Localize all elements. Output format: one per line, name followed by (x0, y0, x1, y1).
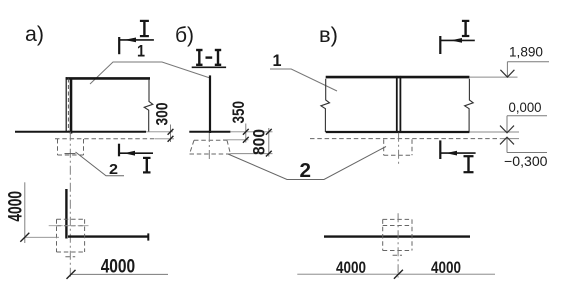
plan view v: wall horizontal (324, 235, 470, 237)
ground line view b (189, 131, 230, 133)
dimension 4000 horizontal (plan a) (71, 273, 168, 275)
dimension 4000 vertical (plan a) (24, 182, 26, 243)
underground dashed line view a (55, 138, 155, 140)
svg-text:4000: 4000 (6, 191, 27, 222)
plan view a: wall horizontal (68, 235, 148, 237)
svg-text:4000: 4000 (431, 258, 461, 277)
foundation dashed box view v elevation (384, 139, 412, 155)
svg-text:1: 1 (137, 42, 145, 61)
centerline view b (208, 133, 210, 161)
leader of label 1 view v (270, 69, 337, 91)
svg-text:350: 350 (229, 101, 248, 124)
foundation trapezoid (dashed) view b (190, 140, 231, 154)
left edge with break (view v) (321, 79, 330, 132)
underground dashed line view v (310, 138, 500, 140)
wall elevation view a (66, 77, 150, 133)
ground line view v (326, 131, 470, 133)
centerline of column view a (elevation to plan) (69, 132, 71, 278)
elevation mark -0,300 (507, 137, 547, 152)
section mark I (bottom of view a) (119, 144, 153, 173)
svg-text:0,000: 0,000 (509, 99, 542, 115)
plan view v: foundation dashed box (383, 219, 412, 250)
elevation mark 0,000 (507, 116, 547, 133)
foundation dashed box view a (58, 139, 84, 155)
plan view a: wall vertical (65, 189, 67, 239)
elevation mark 1,890 (469, 76, 517, 78)
cross tick on centerline (65, 153, 76, 155)
dimension 350 (245, 124, 247, 143)
plan view a: horizontal centerline (49, 225, 89, 227)
dimension 800 (268, 128, 270, 157)
centerline view v elevation (398, 133, 400, 165)
svg-text:2: 2 (300, 160, 312, 182)
extension line for 350 (223, 139, 249, 141)
right edge with break (view a) (144, 79, 153, 132)
cross tick below plan a (65, 256, 75, 258)
svg-text:а): а) (25, 23, 44, 46)
svg-text:в): в) (319, 24, 338, 47)
section title I-I (192, 50, 226, 67)
svg-text:4000: 4000 (336, 258, 366, 277)
plan view a: wall end cap (147, 233, 149, 240)
leader of label 1 (90, 62, 210, 84)
dimension 300 (view a) (170, 125, 172, 143)
svg-text:300: 300 (153, 103, 172, 126)
extension line bottom for 800 (231, 153, 273, 155)
cross tick below plan v (393, 254, 402, 256)
right edge with break (view v) (465, 79, 474, 132)
svg-text:4000: 4000 (101, 257, 136, 278)
section mark I (top of view a) (119, 21, 154, 54)
svg-text:б): б) (175, 24, 194, 47)
svg-text:1: 1 (273, 51, 282, 70)
column section b (209, 75, 211, 133)
leader of label 2 middle (228, 147, 386, 180)
ground line view a (15, 131, 146, 133)
dimension 4000 + 4000 (plan v) (297, 273, 495, 275)
svg-text:1,890: 1,890 (509, 44, 543, 60)
plan view a: foundation dashed box (57, 219, 85, 252)
joint double line in middle (396, 76, 398, 133)
wall elevation view v (326, 76, 470, 79)
section mark I (top of view v) (440, 21, 475, 54)
plan view v: centerline vertical (397, 213, 399, 277)
section mark I (bottom of view v) (440, 140, 475, 172)
svg-text:−0,300: −0,300 (504, 153, 548, 169)
leader of label 2 (view a) (76, 152, 125, 176)
svg-text:800: 800 (250, 129, 269, 155)
